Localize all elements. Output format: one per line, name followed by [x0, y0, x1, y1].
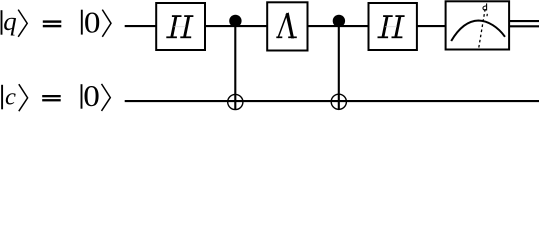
svg-text:q: q — [3, 6, 16, 36]
svg-text:0: 0 — [83, 78, 100, 113]
svg-text:0: 0 — [84, 5, 101, 40]
svg-text:c: c — [5, 84, 16, 111]
